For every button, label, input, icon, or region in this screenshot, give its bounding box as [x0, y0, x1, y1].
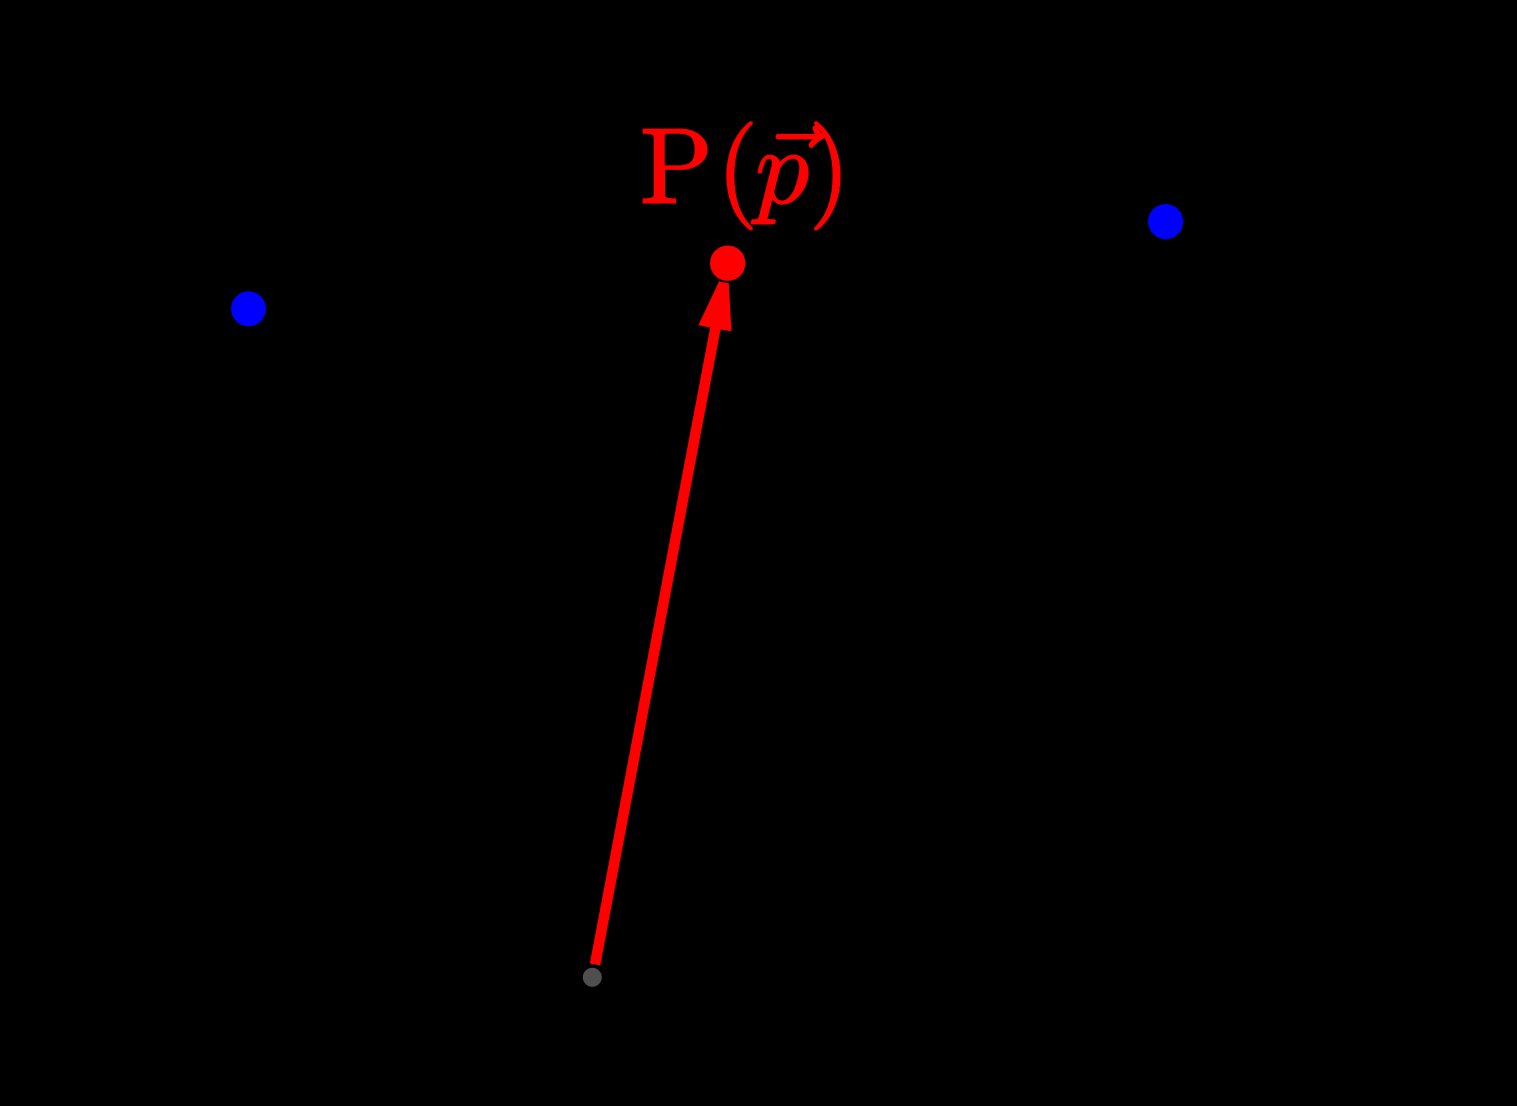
label glyph paren-right [815, 122, 840, 230]
vector arrow shaft (origin to P) [595, 327, 716, 965]
black gap ring around point P dot [708, 243, 748, 283]
origin dot (gray) [583, 968, 602, 987]
label glyph vec-arrow-accent [776, 126, 824, 147]
blue dot left [231, 291, 266, 326]
point P dot (red) [710, 246, 745, 281]
label glyph p-italic [751, 155, 808, 223]
label glyph paren-left [727, 122, 752, 230]
label glyph P [643, 129, 707, 203]
vector arrowhead at P [698, 263, 731, 331]
blue dot right [1148, 204, 1183, 239]
black gap ring around origin dot [579, 964, 605, 990]
